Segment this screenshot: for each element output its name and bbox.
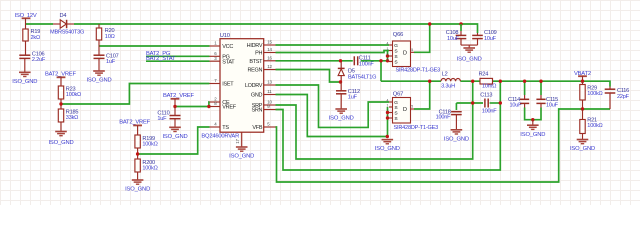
- resistor R200 body: [135, 159, 140, 172]
- svg-text:ISO_GND: ISO_GND: [457, 57, 482, 63]
- svg-text:10uF: 10uF: [484, 36, 497, 42]
- wire branch to U10 CE: [208, 102, 211, 107]
- svg-text:22pF: 22pF: [617, 94, 630, 100]
- svg-text:100nF: 100nF: [436, 115, 452, 121]
- svg-text:ISET: ISET: [222, 82, 234, 88]
- wire C113 right to SRN node: [490, 102, 501, 104]
- svg-text:1uF: 1uF: [348, 94, 358, 100]
- ground ISO_GND below U10 pad: [236, 147, 248, 151]
- wire SRP node to C113 left / C118: [456, 102, 483, 104]
- junction R199/R200/TS: [136, 152, 139, 155]
- junction C114/C115 ground: [531, 118, 534, 121]
- svg-text:GND: GND: [251, 93, 263, 99]
- U10 pin 2 CE: [210, 101, 221, 103]
- svg-text:ISO_GND: ISO_GND: [229, 154, 254, 160]
- svg-text:VFB: VFB: [252, 125, 262, 131]
- capacitor C112 1uF: [340, 82, 342, 91]
- svg-text:ISO_GND: ISO_GND: [48, 140, 73, 146]
- U10 pin 4 TS: [210, 126, 221, 128]
- ground ISO_GND below C110: [169, 127, 181, 131]
- capacitor C116 22pF: [609, 87, 611, 90]
- U10 pin 8 VREF: [210, 106, 221, 108]
- junction C108 tap: [459, 22, 462, 25]
- svg-text:17: 17: [235, 139, 240, 144]
- svg-text:C113: C113: [480, 92, 492, 98]
- svg-text:33kΩ: 33kΩ: [66, 115, 78, 121]
- svg-text:PH: PH: [255, 51, 262, 57]
- svg-text:10uF: 10uF: [447, 36, 460, 42]
- svg-text:R24: R24: [479, 71, 489, 77]
- resistor R20 body: [96, 28, 101, 40]
- junction C113 left: [471, 101, 474, 104]
- resistor R21 100k: [582, 109, 584, 120]
- wire Q66 drain riser to ISO_12V rail: [414, 24, 430, 52]
- resistor R199 body: [135, 135, 140, 148]
- U10 pin 13 LODRV: [264, 84, 276, 86]
- junction Q67 source tie a: [386, 111, 389, 114]
- wire C108 stem: [460, 24, 462, 31]
- junction Q66 drain / rail: [428, 22, 431, 25]
- U10 pin 7 ISET: [210, 83, 221, 85]
- junction R29/R21/VFB: [581, 107, 584, 110]
- svg-text:1uF: 1uF: [157, 116, 167, 122]
- U10 pin 3 STAT: [210, 60, 221, 62]
- U10 pin 6 PG: [210, 55, 221, 57]
- svg-text:100nF: 100nF: [482, 109, 498, 115]
- wire Q67 source tie to ground rail: [387, 107, 389, 137]
- svg-text:10mΩ: 10mΩ: [482, 84, 496, 90]
- resistor R19 2k: [25, 24, 27, 29]
- op-amp U10 BQ24600RVAR body: [220, 39, 264, 133]
- svg-text:U10: U10: [220, 33, 230, 39]
- ground ISO_GND below C107: [93, 71, 105, 75]
- wire BAT2_PG to U10 PG: [146, 55, 210, 57]
- svg-text:ISO_GND: ISO_GND: [375, 146, 400, 152]
- wire U10 LODRV to Q67 gate: [276, 85, 390, 127]
- wire C111 to Q66 source / switch node: [361, 60, 389, 62]
- wire U10 SRN sense to R24 right: [276, 81, 501, 170]
- svg-text:ISO_GND: ISO_GND: [162, 134, 187, 140]
- svg-text:100kΩ: 100kΩ: [66, 92, 81, 98]
- wire C118 stem: [455, 103, 457, 110]
- junction BTST/D5: [339, 59, 342, 62]
- junction switch-node drop: [379, 59, 382, 62]
- junction CE/VREF: [207, 105, 210, 108]
- ground ISO_GND below R200: [132, 180, 144, 184]
- wire U10 PH to Q66 source: [276, 51, 390, 53]
- ground ISO_GND below Q67: [382, 140, 394, 144]
- wire U10 BTST to D5/C111: [276, 60, 353, 62]
- wire BAT2_STAT to U10 STAT: [146, 60, 210, 62]
- svg-text:D: D: [403, 50, 407, 56]
- ground ISO_GND below C108/C109: [463, 48, 475, 52]
- svg-text:3.3uH: 3.3uH: [441, 83, 455, 89]
- capacitor C116 plates: [605, 88, 616, 90]
- resistor R23 body: [58, 86, 63, 99]
- junction SRN tap: [499, 80, 502, 83]
- svg-text:SRN: SRN: [251, 108, 262, 114]
- resistor R185 body: [58, 109, 63, 122]
- transistor Q66 SIR428DP-T1-GE3: [393, 41, 411, 67]
- capacitor C107 plates: [94, 54, 105, 56]
- wire C114/C115 bottoms join: [525, 108, 541, 120]
- svg-text:MBRS540T3G: MBRS540T3G: [50, 29, 84, 35]
- junction Q66 source tie a: [386, 54, 389, 57]
- junction Q66 source tie b: [386, 59, 389, 62]
- svg-text:G: G: [394, 43, 398, 49]
- inductor L2 3.3uH: [441, 78, 460, 81]
- ground ISO_GND below C114/C115: [527, 125, 539, 129]
- wire R199/R200 node to U10 TS: [138, 127, 210, 154]
- wire switch node drop to L2 row: [380, 61, 382, 81]
- svg-text:L2: L2: [442, 71, 448, 77]
- svg-text:100kΩ: 100kΩ: [142, 141, 157, 147]
- capacitor C109 plates: [472, 34, 483, 36]
- capacitor C115 plates: [536, 98, 545, 100]
- wire C115 stem top: [540, 81, 542, 95]
- svg-text:100kΩ: 100kΩ: [142, 165, 157, 171]
- U10 pin 5 VFB: [264, 126, 276, 128]
- capacitor C118 plates: [451, 111, 462, 113]
- capacitor C110 plates: [170, 115, 181, 117]
- svg-text:Q67: Q67: [393, 91, 403, 97]
- wire L2 to R24: [460, 80, 480, 82]
- svg-text:BAT2_STAT: BAT2_STAT: [146, 56, 176, 62]
- wire R23/R185 node to U10 ISET: [61, 84, 210, 105]
- diode D4 MBRS540T3G: [53, 23, 60, 25]
- svg-text:HIDRV: HIDRV: [247, 43, 263, 49]
- resistor R20 10ohm: [98, 24, 100, 28]
- junction C110 tap: [173, 105, 176, 108]
- wire C114 stem top: [524, 81, 526, 95]
- U10 pin 15 HIDRV: [264, 44, 276, 46]
- svg-text:2.2uF: 2.2uF: [32, 57, 46, 63]
- svg-text:D4: D4: [60, 13, 67, 19]
- U10 pin 9 SRN: [264, 109, 276, 111]
- wire ISO_12V rail D4 cathode to C109: [74, 24, 478, 33]
- wire Q67 drain riser to switch node: [414, 81, 430, 109]
- svg-text:ISO_GND: ISO_GND: [520, 132, 545, 138]
- capacitor C114 10uF: [524, 95, 526, 99]
- ground ISO_GND below R185: [55, 132, 67, 136]
- junction C113 right: [499, 101, 502, 104]
- wire U10 HIDRV to Q66 gate: [276, 44, 390, 46]
- svg-text:16: 16: [267, 55, 272, 60]
- svg-text:ISO_GND: ISO_GND: [329, 116, 354, 122]
- junction SRP tap: [471, 80, 474, 83]
- U10 pin 16 BTST: [264, 60, 276, 62]
- capacitor C108 plates: [456, 34, 467, 36]
- svg-text:2kΩ: 2kΩ: [31, 35, 40, 41]
- wire R20 to U10 VCC: [99, 45, 210, 47]
- svg-text:14: 14: [267, 47, 272, 52]
- capacitor C111 plates: [353, 56, 355, 65]
- junction C114 tap: [523, 80, 526, 83]
- capacitor C114 plates: [520, 98, 529, 100]
- svg-text:LODRV: LODRV: [245, 83, 263, 89]
- svg-text:REGN: REGN: [247, 68, 262, 74]
- U10 pin 1 VCC: [210, 45, 221, 47]
- resistor R29 100k: [582, 81, 584, 84]
- svg-text:ISO_GND: ISO_GND: [444, 136, 469, 142]
- ground ISO_GND below R21: [577, 140, 589, 144]
- wire U10 VFB to R29/R21 divider: [276, 109, 611, 182]
- U10 pin 10 SRP: [264, 104, 276, 106]
- svg-text:BTST: BTST: [249, 59, 263, 65]
- svg-text:10uF: 10uF: [510, 103, 523, 109]
- power bar ISO_12V: [22, 17, 31, 19]
- svg-text:1uF: 1uF: [106, 59, 116, 65]
- capacitor C115 10uF: [540, 95, 542, 99]
- svg-text:ISO_GND: ISO_GND: [12, 79, 37, 85]
- capacitor C110 1uF: [174, 107, 176, 116]
- ground ISO_GND below C118: [451, 130, 463, 134]
- U10 pin 11 GND: [264, 94, 276, 96]
- wire Q66 source tie: [387, 51, 389, 61]
- wire BAT2_VREF to U10 VREF: [175, 106, 210, 108]
- power bar BAT2_VREF bottom: [133, 124, 142, 126]
- svg-text:ISO_GND: ISO_GND: [125, 187, 150, 193]
- resistor R21 body: [580, 120, 585, 134]
- resistor R24 body: [480, 78, 493, 84]
- resistor R29 body: [580, 85, 585, 101]
- svg-text:Q66: Q66: [393, 32, 403, 38]
- svg-text:BAT54LT1G: BAT54LT1G: [348, 74, 376, 80]
- capacitor C106 plates: [19, 54, 30, 56]
- U10 pin 14 PH: [264, 52, 276, 54]
- svg-text:100nF: 100nF: [359, 61, 375, 67]
- svg-text:10Ω: 10Ω: [105, 34, 115, 40]
- svg-text:100kΩ: 100kΩ: [587, 91, 602, 97]
- capacitor C113 plates: [484, 99, 486, 108]
- U10 pin 12 REGN: [264, 69, 276, 71]
- wire switch node to L2: [381, 80, 441, 82]
- wire U10 GND to power ground rail: [276, 95, 388, 137]
- svg-text:TS: TS: [222, 125, 229, 131]
- svg-text:100kΩ: 100kΩ: [587, 123, 602, 129]
- svg-text:VCC: VCC: [222, 44, 233, 50]
- svg-text:12: 12: [267, 64, 272, 69]
- power bar BAT2_VREF left: [57, 76, 66, 78]
- junction R23/R185/ISET: [59, 102, 62, 105]
- svg-text:SIR428DP-T1-GE3: SIR428DP-T1-GE3: [394, 125, 439, 131]
- capacitor C112 plates: [336, 90, 346, 92]
- svg-text:SIR428DP-T1-GE3: SIR428DP-T1-GE3: [396, 68, 441, 74]
- wire ISO_12V to D4 anode: [26, 23, 54, 25]
- ground ISO_GND below C106: [19, 72, 31, 76]
- resistor R19 body: [23, 29, 28, 41]
- svg-text:15: 15: [267, 40, 272, 45]
- svg-text:ISO_GND: ISO_GND: [86, 78, 111, 84]
- power bar BAT2_VREF middle: [171, 98, 180, 100]
- wire C108/C109 bottoms join: [461, 44, 478, 46]
- junction VBAT2 node: [581, 80, 584, 83]
- wire R24 to VBAT2 / C116: [493, 81, 611, 86]
- power bar VBAT2: [578, 75, 587, 77]
- wire U10 REGN to D5 anode / C112: [276, 70, 341, 83]
- transistor Q67 SIR428DP-T1-GE3: [393, 98, 411, 124]
- svg-text:STAT: STAT: [222, 59, 235, 65]
- svg-text:BQ24600RVAR: BQ24600RVAR: [201, 134, 239, 140]
- svg-text:ISO_GND: ISO_GND: [570, 146, 595, 152]
- diode D5 BAT54LT1G: [340, 61, 342, 69]
- junction C115 tap: [539, 80, 542, 83]
- junction Q67 source tie b: [386, 116, 389, 119]
- ground ISO_GND below C112: [335, 109, 347, 113]
- junction Q67 ground rail: [386, 135, 389, 138]
- U10 pin 17 thermal pad: [241, 132, 243, 147]
- svg-text:VREF: VREF: [222, 105, 236, 111]
- junction Q67 drain / switch node: [428, 80, 431, 83]
- svg-text:D: D: [403, 107, 407, 113]
- svg-text:13: 13: [267, 80, 272, 85]
- capacitor C107 1uF: [98, 46, 100, 55]
- svg-text:10uF: 10uF: [546, 103, 559, 109]
- junction REGN/D5/C112: [339, 80, 342, 83]
- wire U10 SRP sense to R24 left: [276, 81, 473, 159]
